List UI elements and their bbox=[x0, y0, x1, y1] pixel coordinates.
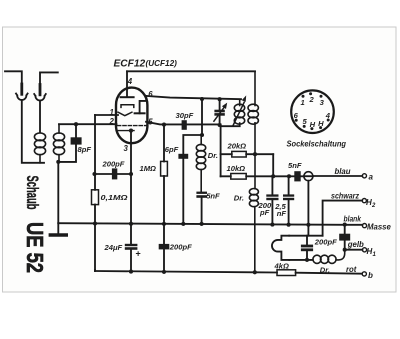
node filter bottom bbox=[305, 258, 309, 262]
capacitor C masse bbox=[339, 225, 350, 250]
node L2 bottom junction bbox=[56, 160, 60, 164]
filter bottom wire bbox=[289, 259, 313, 261]
svg-text:4: 4 bbox=[325, 111, 331, 120]
capacitor C 24uF electrolytic bbox=[104, 224, 141, 272]
svg-text:20kΩ: 20kΩ bbox=[227, 141, 247, 150]
svg-text:gelb: gelb bbox=[347, 240, 364, 249]
triode grid bbox=[121, 105, 134, 108]
svg-text:4: 4 bbox=[127, 77, 133, 86]
ground symbol bbox=[57, 223, 59, 233]
resistor R 4k bbox=[274, 262, 296, 276]
node 8pF top bbox=[74, 122, 78, 126]
node 200pF filter bottom bbox=[162, 270, 166, 274]
plug symbol filter left bbox=[272, 236, 289, 260]
svg-text:5nF: 5nF bbox=[288, 161, 302, 170]
svg-text:200pF: 200pF bbox=[169, 243, 192, 252]
pentode grid dashed bbox=[118, 125, 147, 127]
svg-text:Dr.: Dr. bbox=[208, 151, 218, 160]
oscillator coil L osc bbox=[233, 95, 246, 126]
antenna jack J1 socket bbox=[16, 94, 28, 101]
scan page border bbox=[3, 27, 397, 292]
svg-text:+: + bbox=[136, 249, 141, 259]
wire 20k to 10k right link bbox=[272, 154, 274, 176]
node 24uF bottom bbox=[129, 270, 133, 274]
capacitor C 200pF anode bbox=[258, 176, 279, 224]
node output wire junction bbox=[287, 174, 291, 178]
node masse cap top bbox=[343, 223, 347, 227]
choke Dr1 bbox=[196, 135, 218, 192]
svg-text:0,1MΩ: 0,1MΩ bbox=[101, 193, 128, 202]
svg-text:2: 2 bbox=[308, 95, 314, 104]
node 2,5nF bus bbox=[287, 223, 291, 227]
wire resistor left vertical bbox=[220, 124, 222, 176]
node 6pF bus junction bbox=[181, 222, 185, 226]
node cathode R junction bbox=[92, 172, 96, 176]
svg-text:30pF: 30pF bbox=[176, 111, 194, 120]
svg-text:Dr.: Dr. bbox=[234, 193, 244, 202]
terminal Masse bbox=[362, 224, 366, 228]
svg-text:blank: blank bbox=[344, 215, 362, 224]
svg-text:1MΩ: 1MΩ bbox=[140, 164, 157, 173]
wire pin1 (cathode) bbox=[95, 114, 118, 116]
coil L1 antenna primary bbox=[34, 133, 45, 163]
node R0,1M bus crossing bbox=[93, 221, 97, 225]
svg-text:6pF: 6pF bbox=[165, 145, 179, 154]
node output bus junction bbox=[306, 223, 310, 227]
antenna jack J2 pin bbox=[39, 85, 42, 95]
capacitor C 200pF cathode bbox=[95, 160, 132, 180]
feedback coil L fb bbox=[248, 71, 258, 154]
node pin3 bus junction bbox=[129, 222, 133, 226]
node cathode cap right bbox=[129, 172, 133, 176]
svg-text:4kΩ: 4kΩ bbox=[274, 262, 289, 271]
wire pin6 to osc tank bbox=[146, 96, 241, 99]
choke Dr3 tone bbox=[313, 250, 345, 275]
wire osc tank bottom bbox=[221, 125, 240, 127]
antenna jack J1 pin bbox=[20, 84, 23, 94]
tube ECF12 envelope bbox=[116, 88, 147, 144]
node 1M bus junction bbox=[162, 222, 166, 226]
svg-text:rot: rot bbox=[346, 265, 357, 274]
svg-text:(UCF12): (UCF12) bbox=[146, 59, 178, 68]
bottom supply bus bbox=[95, 271, 362, 274]
coil L2 antenna secondary bbox=[53, 124, 64, 162]
svg-text:nF: nF bbox=[277, 209, 287, 218]
svg-text:UE 52: UE 52 bbox=[22, 222, 48, 273]
antenna jack J1 stub bbox=[5, 71, 22, 84]
svg-text:3: 3 bbox=[124, 144, 129, 153]
svg-text:200pF: 200pF bbox=[314, 237, 337, 246]
wire J1 to coil L1 bottom bbox=[22, 100, 44, 163]
node 5nF bus junction bbox=[200, 222, 204, 226]
svg-text:Masse: Masse bbox=[367, 223, 392, 232]
pentode anode bbox=[135, 112, 145, 114]
tube pin4 anode wire bbox=[126, 71, 128, 95]
variable capacitor C osc bbox=[214, 97, 227, 127]
capacitor C 200pF filter bbox=[159, 224, 192, 272]
svg-text:1: 1 bbox=[110, 108, 114, 117]
wire output down to filter bbox=[307, 181, 309, 225]
capacitor C 5nF osc bbox=[196, 192, 220, 224]
wire pin5 bbox=[146, 122, 221, 125]
wire schwarz to terminal H2 bbox=[323, 201, 363, 236]
node osc wire top bbox=[200, 97, 204, 101]
wire J2 to coil L1 top bbox=[39, 101, 41, 133]
pentode cathode bar bbox=[118, 130, 134, 132]
socket pin dots bbox=[295, 92, 330, 130]
wire blau to terminal a bbox=[313, 175, 362, 177]
antenna jack J2 socket bbox=[34, 94, 46, 101]
terminal a bbox=[362, 174, 366, 178]
wire pin3 cathode down bbox=[130, 131, 132, 224]
node B+ 20k right bbox=[253, 152, 257, 156]
svg-text:8pF: 8pF bbox=[78, 145, 92, 154]
wire R0,1M to bottom bus corner bbox=[94, 270, 96, 271]
svg-text:6: 6 bbox=[148, 90, 153, 99]
capacitor C 6pF bbox=[165, 135, 202, 224]
svg-text:200pF: 200pF bbox=[102, 160, 125, 169]
capacitor C 8pF bbox=[58, 124, 91, 162]
wire gelb to terminal H1 bbox=[345, 249, 363, 251]
svg-text:1: 1 bbox=[300, 98, 304, 107]
triode anode bar bbox=[121, 96, 134, 98]
node Dr2 bottom bus bbox=[253, 270, 257, 274]
socket pin numbers bbox=[294, 95, 331, 129]
wire L2 bottom to ground bus bbox=[57, 162, 59, 223]
svg-text:10kΩ: 10kΩ bbox=[227, 164, 246, 173]
resistor R 1M grid leak bbox=[140, 123, 168, 224]
svg-text:2: 2 bbox=[109, 117, 115, 126]
node 200pF anode bus bbox=[270, 223, 274, 227]
wire anode top (pin4 line) bbox=[127, 70, 255, 72]
svg-text:ECF12: ECF12 bbox=[114, 58, 146, 69]
antenna jack J2 stub bbox=[40, 72, 58, 84]
svg-text:Schaub: Schaub bbox=[23, 176, 41, 210]
svg-text:a: a bbox=[369, 172, 374, 181]
socket diagram circle bbox=[291, 90, 334, 133]
terminal H1 bbox=[362, 248, 366, 252]
wire blank to terminal Masse bbox=[345, 224, 363, 226]
terminal b bbox=[362, 272, 366, 276]
terminal H2 bbox=[362, 199, 366, 203]
svg-text:H: H bbox=[310, 120, 316, 129]
node cathode pin3 bbox=[129, 129, 133, 133]
svg-text:schwarz: schwarz bbox=[331, 191, 359, 200]
resistor R 0,1M bbox=[92, 174, 128, 271]
svg-text:5nF: 5nF bbox=[206, 192, 220, 201]
node gelb junction bbox=[343, 248, 347, 252]
svg-text:blau: blau bbox=[335, 167, 351, 176]
node osc grid junction bbox=[200, 133, 204, 137]
ground bus bbox=[58, 223, 344, 225]
node link junction bbox=[271, 174, 275, 178]
resistor R 20k bbox=[221, 141, 274, 157]
capacitor C 2,5nF bbox=[274, 176, 294, 224]
svg-text:H: H bbox=[318, 119, 324, 128]
svg-text:24μF: 24μF bbox=[104, 243, 123, 252]
capacitor C 30pF bbox=[176, 111, 194, 130]
svg-text:Sockelschaltung: Sockelschaltung bbox=[287, 139, 347, 148]
wire osc grid vertical bbox=[201, 99, 203, 135]
svg-text:5: 5 bbox=[148, 118, 153, 127]
wire pin1 down branch bbox=[94, 115, 96, 174]
svg-text:b: b bbox=[368, 271, 373, 280]
resistor R 10k bbox=[221, 164, 289, 179]
wire grid (pin2) to L2 top bbox=[59, 123, 117, 125]
capacitor C 5nF output bbox=[288, 161, 304, 181]
lamp symbol output bbox=[304, 172, 313, 181]
svg-text:pF: pF bbox=[259, 208, 270, 217]
triode cathode bbox=[118, 112, 132, 116]
choke Dr2 B+ bbox=[234, 154, 259, 272]
filter box top wire bbox=[289, 235, 322, 237]
capacitor C 200pF tone bbox=[301, 236, 337, 260]
svg-text:2: 2 bbox=[371, 203, 376, 209]
